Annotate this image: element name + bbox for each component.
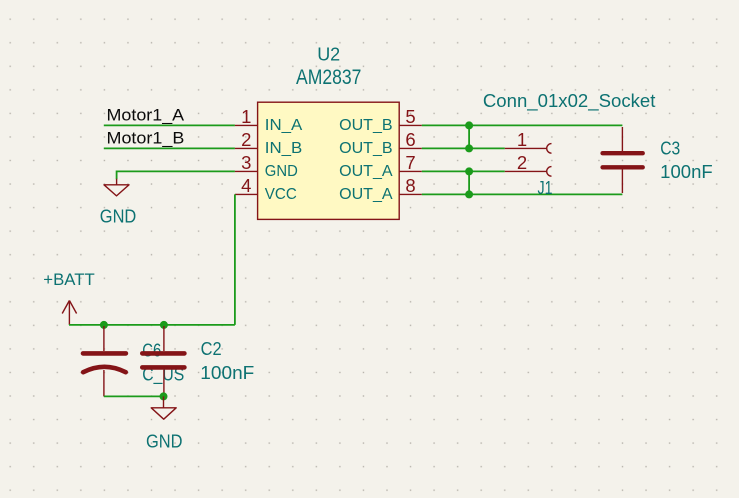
capacitor C3 bbox=[603, 127, 643, 193]
svg-text:C3: C3 bbox=[660, 139, 680, 159]
wire pin8 to C3 bottom bbox=[422, 193, 623, 195]
pin 3 GND bbox=[235, 170, 258, 172]
svg-text:AM2837: AM2837 bbox=[296, 66, 361, 89]
wire pin7 to J1 pin2 bbox=[422, 170, 505, 172]
svg-text:3: 3 bbox=[241, 152, 251, 173]
wire pin6 to J1 pin1 bbox=[422, 147, 505, 149]
wire Motor1_B to pin 2 bbox=[104, 147, 235, 149]
svg-text:U2: U2 bbox=[317, 45, 340, 65]
junction at GND2 bbox=[160, 392, 168, 400]
wire pin5 to C3 top bbox=[422, 124, 623, 126]
svg-text:C2: C2 bbox=[201, 339, 222, 359]
svg-text:IN_B: IN_B bbox=[265, 140, 303, 157]
svg-text:7: 7 bbox=[405, 152, 415, 173]
wire VCC down bbox=[234, 194, 236, 325]
svg-text:4: 4 bbox=[241, 175, 251, 196]
svg-text:IN_A: IN_A bbox=[265, 117, 303, 134]
svg-text:+BATT: +BATT bbox=[43, 270, 94, 289]
pin 5 OUT_B bbox=[399, 124, 422, 126]
connector J1 pin 2 bbox=[505, 167, 552, 177]
junction pin6 bbox=[465, 144, 473, 152]
svg-text:GND: GND bbox=[265, 163, 298, 180]
svg-text:VCC: VCC bbox=[265, 186, 297, 203]
wire Motor1_A to pin 1 bbox=[104, 124, 235, 126]
svg-text:OUT_B: OUT_B bbox=[339, 117, 393, 134]
svg-text:OUT_A: OUT_A bbox=[339, 163, 393, 180]
svg-text:Motor1_B: Motor1_B bbox=[107, 129, 185, 148]
svg-text:C6: C6 bbox=[142, 340, 161, 360]
svg-text:2: 2 bbox=[241, 129, 251, 150]
svg-text:1: 1 bbox=[517, 129, 527, 150]
ground symbol GND2 bbox=[151, 396, 176, 419]
ground symbol GND1 bbox=[104, 179, 129, 196]
wire junction 7-8 bbox=[468, 171, 470, 194]
svg-text:8: 8 bbox=[405, 175, 415, 196]
power symbol +BATT bbox=[62, 301, 76, 325]
pin 8 OUT_A bbox=[399, 193, 422, 195]
wire junction 5-6 bbox=[468, 125, 470, 148]
svg-text:OUT_B: OUT_B bbox=[339, 140, 393, 157]
junction pin7 bbox=[465, 167, 473, 175]
svg-text:2: 2 bbox=[517, 152, 527, 173]
connector J1 pin 1 bbox=[505, 144, 552, 154]
junction pin5 bbox=[465, 121, 473, 129]
capacitor C6 bbox=[83, 326, 126, 396]
svg-text:100nF: 100nF bbox=[660, 162, 713, 182]
svg-text:OUT_A: OUT_A bbox=[339, 186, 393, 203]
svg-text:J1: J1 bbox=[538, 178, 553, 198]
wire +BATT rail bbox=[69, 324, 235, 326]
svg-text:Conn_01x02_Socket: Conn_01x02_Socket bbox=[483, 91, 656, 112]
svg-text:GND: GND bbox=[146, 431, 183, 451]
wire C6 bottom to junction bbox=[104, 395, 164, 397]
junction at C2 top bbox=[160, 321, 168, 329]
pin 6 OUT_B bbox=[399, 147, 422, 149]
junction pin8 bbox=[465, 190, 473, 198]
capacitor C2 bbox=[142, 326, 184, 396]
svg-text:100nF: 100nF bbox=[200, 363, 254, 383]
IC U2 body bbox=[258, 102, 400, 219]
svg-text:5: 5 bbox=[405, 106, 415, 127]
svg-text:Motor1_A: Motor1_A bbox=[107, 106, 185, 125]
pin 2 IN_B bbox=[235, 147, 258, 149]
pin 1 IN_A bbox=[235, 124, 258, 126]
pin 4 VCC bbox=[235, 193, 258, 195]
svg-text:GND: GND bbox=[100, 206, 137, 226]
pin 7 OUT_A bbox=[399, 170, 422, 172]
svg-text:1: 1 bbox=[241, 106, 251, 127]
wire pin 3 to GND bbox=[117, 171, 235, 179]
svg-text:6: 6 bbox=[405, 129, 415, 150]
junction at C6 top bbox=[100, 321, 108, 329]
